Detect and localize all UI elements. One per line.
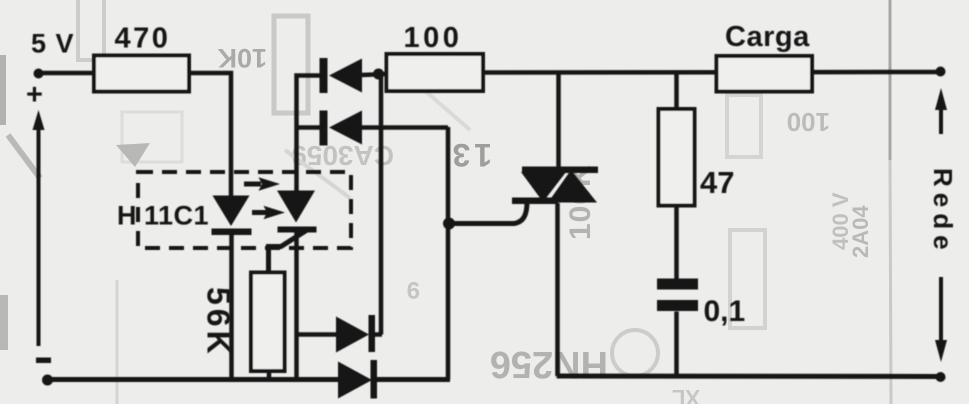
terminal 5V- <box>42 375 53 386</box>
wire triac MT1 down <box>555 203 560 376</box>
light arrow 2 <box>252 206 285 219</box>
diode D3 <box>297 315 382 353</box>
triac Q1 <box>512 167 598 205</box>
wire bridge AC node A (vertical) with D1/D2 taps <box>297 76 321 192</box>
svg-text:13: 13 <box>448 137 492 173</box>
svg-text:56K: 56K <box>201 287 237 358</box>
node P junction dot <box>373 69 384 80</box>
optocoupler H11C1 dashed outline <box>138 172 351 248</box>
svg-text:Rede: Rede <box>928 168 958 256</box>
LED of H11C1 <box>212 196 252 236</box>
terminal mains top <box>936 67 946 77</box>
capacitor 0,1 <box>657 279 698 312</box>
wire triac gate <box>448 202 527 224</box>
wire 5V+ to R 470 <box>40 71 95 76</box>
wire SCR cathode down to rail <box>294 231 299 380</box>
wire node X vertical (D2/D4 to gate) <box>446 127 451 380</box>
wire R47 to C1 <box>674 206 679 280</box>
resistor 470 <box>94 56 189 92</box>
node X junction dot <box>443 218 455 230</box>
svg-text:H11C1: H11C1 <box>117 201 209 231</box>
svg-text:HN256: HN256 <box>490 343 608 385</box>
wire node P vertical (to D3 cathode) <box>379 74 384 335</box>
resistor 47 <box>659 109 695 206</box>
svg-text:47: 47 <box>700 165 734 200</box>
wire 56K bottom stub <box>267 371 272 380</box>
diode D1 <box>320 58 388 93</box>
wire bottom rail (right / mains) <box>557 374 941 380</box>
wire triac MT2 <box>556 73 561 169</box>
terminal 5V+ <box>34 69 44 79</box>
diode D4 <box>338 360 450 399</box>
svg-text:0,1: 0,1 <box>704 295 746 328</box>
terminal mains bottom <box>936 372 946 382</box>
wire top of R47 <box>674 73 679 111</box>
svg-text:XL: XL <box>672 385 700 404</box>
photo-SCR of H11C1 <box>269 191 317 274</box>
svg-text:10K: 10K <box>217 43 267 73</box>
svg-text:+: + <box>26 79 43 111</box>
wire top rail (R100 to mains terminal) <box>483 70 937 75</box>
wire bottom rail (left / DC ground) <box>47 377 339 382</box>
label minus <box>36 358 51 364</box>
svg-text:400 V: 400 V <box>828 192 853 250</box>
arrow down (Rede) <box>935 277 947 362</box>
diode D2 <box>320 111 449 146</box>
svg-text:9: 9 <box>407 276 420 303</box>
polarity arrow up (5 V input) <box>33 110 45 346</box>
light arrow 1 <box>244 177 280 190</box>
svg-text:100: 100 <box>787 107 830 137</box>
wire R470 to LED anode <box>189 73 231 196</box>
arrow up (Rede) <box>935 88 947 134</box>
svg-text:Carga: Carga <box>725 21 810 53</box>
resistor 56K <box>251 273 285 372</box>
svg-text:470: 470 <box>115 23 171 55</box>
resistor 100 <box>387 54 484 91</box>
svg-text:5 V: 5 V <box>31 29 75 59</box>
wire C1 to bottom rail <box>674 312 679 377</box>
wire LED cathode down to rail <box>229 235 234 380</box>
resistor Carga <box>717 56 813 92</box>
svg-text:100: 100 <box>404 22 463 54</box>
